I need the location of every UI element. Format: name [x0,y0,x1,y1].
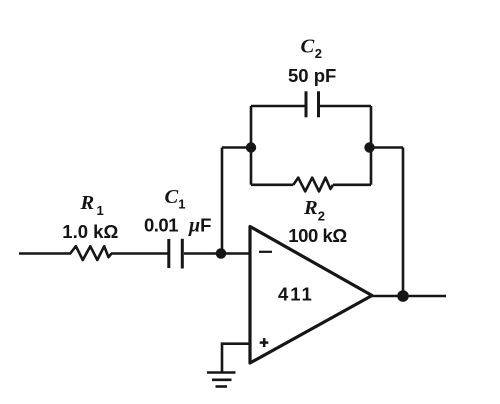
wire: input lead [19,252,67,255]
wire: parallel network right side [370,106,373,185]
wire: C1 to inverting input [184,252,250,255]
wire: bottom branch right of R2 [333,184,371,187]
capacitor C2 [306,91,319,117]
wire: output lead [372,295,446,298]
node: left junction of parallel network [246,142,256,152]
wire: R1 to C1 [111,252,168,255]
op-amp inverting pin minus sign [259,251,272,253]
svg-text:R: R [80,192,95,214]
wire: bottom branch left of R2 [251,184,293,187]
wire: top branch left of C2 [251,105,305,108]
svg-text:1.0 kΩ: 1.0 kΩ [62,221,118,242]
svg-text:100 kΩ: 100 kΩ [288,225,347,246]
ground symbol [207,373,236,387]
resistor R2 [293,178,333,192]
svg-text:1: 1 [97,203,104,218]
svg-text:0.01: 0.01 [144,215,178,236]
node: output junction [397,290,409,302]
wire: right feedback vertical [402,148,405,297]
wire: parallel network left side [250,106,253,185]
svg-text:2: 2 [315,46,322,61]
svg-text:411: 411 [278,284,314,305]
capacitor C1 [169,239,183,269]
node: inverting input junction [216,248,227,259]
wire: left feedback vertical [221,148,224,254]
wire: stub to parallel network left [222,146,251,149]
svg-text:C: C [165,186,179,208]
svg-text:R: R [303,197,318,219]
resistor R1 [67,246,112,260]
svg-text:μF: μF [188,215,211,237]
node: right junction of parallel network [364,142,374,152]
op-amp U1 triangle [250,227,372,364]
op-amp non-inverting pin plus sign [260,341,269,344]
svg-text:C: C [301,36,315,58]
svg-text:1: 1 [178,197,185,212]
wire: non-inverting input to ground [222,344,250,372]
svg-text:50 pF: 50 pF [288,65,336,86]
wire: top branch right of C2 [320,105,371,108]
wire: stub from parallel network right [370,146,403,149]
svg-text:2: 2 [318,209,325,224]
